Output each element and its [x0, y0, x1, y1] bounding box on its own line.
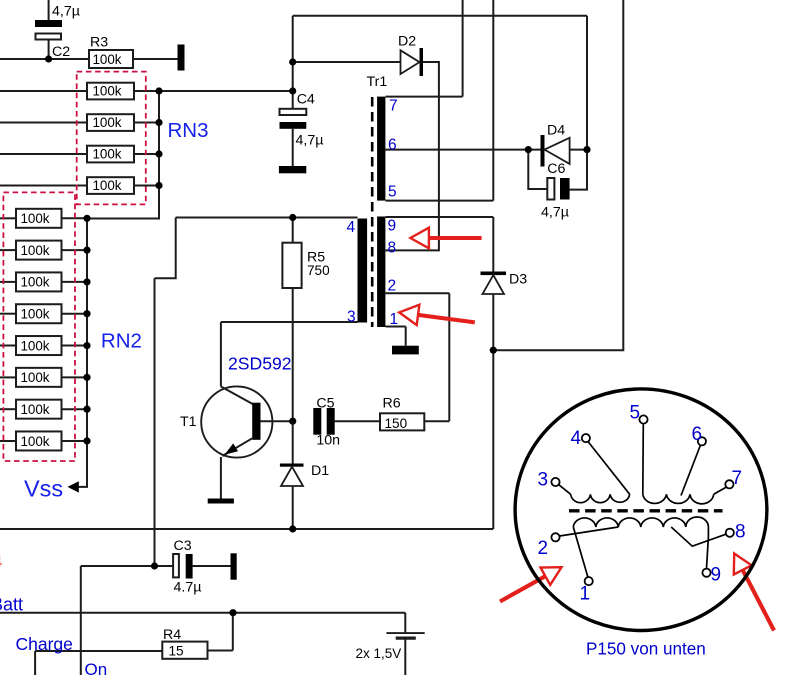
svg-text:C5: C5 [316, 395, 334, 411]
svg-text:7: 7 [732, 468, 743, 489]
svg-text:2: 2 [538, 538, 549, 559]
svg-text:4,7µ: 4,7µ [296, 133, 324, 149]
svg-text:100k: 100k [20, 275, 49, 290]
svg-text:Charge: Charge [16, 634, 73, 654]
svg-text:3: 3 [347, 308, 356, 325]
svg-text:750: 750 [307, 263, 330, 278]
svg-text:100k: 100k [92, 52, 121, 67]
svg-text:2: 2 [388, 277, 397, 294]
svg-text:9: 9 [711, 564, 722, 585]
svg-text:R3: R3 [90, 34, 108, 50]
svg-text:C4: C4 [297, 92, 315, 108]
svg-text:8: 8 [735, 521, 746, 542]
svg-text:150: 150 [385, 416, 408, 431]
svg-text:7: 7 [389, 98, 398, 115]
svg-text:4: 4 [347, 219, 356, 236]
svg-text:D3: D3 [509, 271, 527, 287]
svg-text:1: 1 [390, 311, 399, 328]
svg-text:6: 6 [388, 136, 397, 153]
svg-text:100k: 100k [92, 115, 121, 130]
svg-text:100k: 100k [20, 243, 49, 258]
svg-text:C2: C2 [52, 44, 70, 60]
svg-text:R6: R6 [383, 395, 401, 411]
svg-text:D1: D1 [311, 463, 329, 479]
svg-text:Vss: Vss [24, 475, 63, 501]
svg-text:4,7µ: 4,7µ [52, 4, 80, 20]
svg-text:D2: D2 [398, 34, 416, 50]
svg-text:Tr1: Tr1 [367, 74, 388, 90]
svg-text:C6: C6 [547, 161, 565, 177]
svg-text:100k: 100k [20, 402, 49, 417]
svg-text:100k: 100k [92, 147, 121, 162]
svg-text:On: On [85, 660, 108, 675]
svg-text:1: 1 [580, 583, 591, 604]
svg-text:100k: 100k [20, 338, 49, 353]
svg-text:100k: 100k [20, 307, 49, 322]
svg-text:RN2: RN2 [101, 329, 142, 352]
svg-text:T1: T1 [180, 414, 197, 430]
svg-text:100k: 100k [20, 434, 49, 449]
svg-text:D4: D4 [547, 122, 565, 138]
svg-text:10n: 10n [316, 433, 340, 449]
svg-text:2SD592: 2SD592 [228, 354, 292, 374]
svg-text:100k: 100k [92, 178, 121, 193]
svg-text:4.7µ: 4.7µ [174, 579, 202, 595]
svg-text:2x 1,5V: 2x 1,5V [356, 646, 402, 661]
svg-text:R4: R4 [163, 627, 181, 643]
svg-text:6: 6 [692, 424, 703, 445]
svg-text:5: 5 [388, 184, 397, 201]
svg-text:4: 4 [0, 553, 2, 571]
svg-text:4: 4 [571, 428, 582, 449]
svg-text:100k: 100k [20, 211, 49, 226]
svg-text:9: 9 [388, 218, 397, 235]
svg-text:100k: 100k [20, 370, 49, 385]
svg-text:P150 von unten: P150 von unten [586, 640, 706, 659]
svg-text:15: 15 [169, 644, 184, 659]
svg-text:C3: C3 [174, 538, 192, 554]
svg-text:4,7µ: 4,7µ [541, 205, 569, 221]
svg-text:RN3: RN3 [168, 119, 209, 142]
svg-text:100k: 100k [92, 84, 121, 99]
svg-text:3: 3 [538, 469, 549, 490]
svg-text:8: 8 [388, 240, 397, 257]
svg-text:Batt: Batt [0, 594, 23, 614]
svg-text:5: 5 [630, 402, 641, 423]
